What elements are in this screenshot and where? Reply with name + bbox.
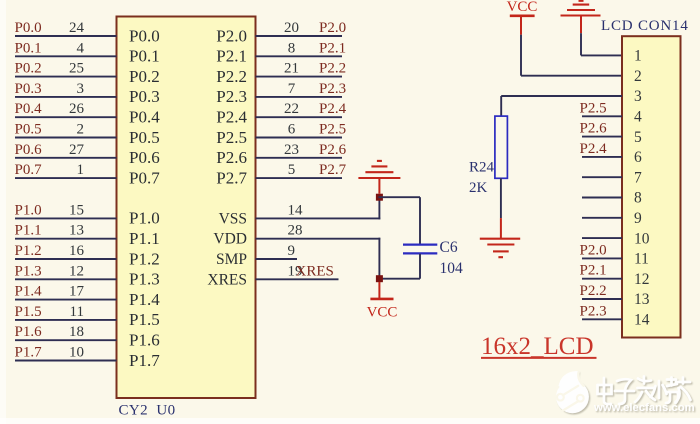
wire junction to C6 top — [378, 196, 420, 198]
svg-text:P1.3: P1.3 — [129, 270, 160, 289]
CON14 pin 5 stub wire / net P2.6 — [580, 121, 643, 146]
svg-text:P1.4: P1.4 — [129, 290, 160, 309]
wire R24 to ground — [500, 178, 502, 218]
svg-text:10: 10 — [69, 345, 84, 361]
pin 11 / net P1.5 wire (U0 left lower) — [15, 304, 160, 329]
svg-text:P2.1: P2.1 — [580, 263, 607, 279]
svg-text:7: 7 — [634, 169, 642, 186]
CON14 pin 4 stub wire / net P2.5 — [580, 100, 643, 125]
svg-text:P0.5: P0.5 — [15, 122, 42, 138]
svg-text:8: 8 — [288, 40, 296, 56]
wire VCC to CON14 pin 2 — [520, 35, 522, 76]
svg-text:104: 104 — [440, 260, 464, 277]
pin 9 SMP stub wire — [216, 243, 297, 268]
svg-text:www.elecfans.com: www.elecfans.com — [593, 402, 695, 414]
CON14 pin 10 stub wire (n.c.) — [582, 230, 650, 247]
svg-text:P2.0: P2.0 — [319, 20, 346, 36]
junction node at VDD/VCC/C6 — [376, 275, 383, 282]
svg-text:P2.7: P2.7 — [319, 162, 347, 178]
svg-text:21: 21 — [284, 61, 299, 77]
svg-text:XRES: XRES — [296, 263, 334, 279]
svg-text:P0.3: P0.3 — [129, 87, 160, 106]
svg-text:P2.0: P2.0 — [580, 242, 607, 258]
svg-text:P2.6: P2.6 — [580, 121, 608, 137]
svg-text:P2.5: P2.5 — [216, 128, 247, 147]
wire ground to CON14 pin 1 — [580, 33, 582, 55]
svg-text:P2.4: P2.4 — [216, 108, 247, 127]
svg-text:P0.3: P0.3 — [15, 81, 42, 97]
watermark text elecfans (CJK) — [598, 377, 691, 405]
svg-text:P0.2: P0.2 — [15, 61, 42, 77]
svg-text:P0.7: P0.7 — [15, 162, 43, 178]
connector CON14 body — [622, 36, 681, 337]
pin 3 / net P0.3 wire (U0 left) — [15, 81, 160, 106]
CON14 pin 8 stub wire (n.c.) — [582, 190, 642, 207]
svg-text:P0.5: P0.5 — [129, 128, 160, 147]
svg-text:P1.0: P1.0 — [15, 202, 42, 218]
wire VSS vertical up to junction — [378, 197, 380, 219]
svg-text:2K: 2K — [469, 180, 488, 196]
watermark text www.elecfans.com — [593, 402, 695, 414]
svg-text:P1.5: P1.5 — [15, 304, 42, 320]
svg-text:P2.7: P2.7 — [216, 168, 247, 187]
svg-text:16x2_LCD: 16x2_LCD — [481, 333, 594, 360]
svg-text:P2.2: P2.2 — [216, 67, 247, 86]
svg-text:P0.1: P0.1 — [15, 40, 42, 56]
pin 1 / net P0.7 wire (U0 left) — [15, 162, 161, 187]
pin 19 XRES wire and net label XRES — [207, 263, 338, 288]
svg-text:P2.6: P2.6 — [319, 142, 347, 158]
pin 4 / net P0.1 wire (U0 left) — [15, 40, 160, 65]
VCC power symbol below junction — [370, 282, 393, 299]
svg-text:25: 25 — [69, 61, 84, 77]
wire CON14 pin 3 to R24 — [501, 95, 622, 97]
VCC power symbol (top) — [507, 0, 538, 35]
svg-text:P0.1: P0.1 — [129, 47, 160, 66]
svg-text:10: 10 — [634, 230, 650, 247]
svg-text:P1.6: P1.6 — [129, 331, 160, 350]
pin 8 / net P2.1 wire (U0 right) — [216, 40, 346, 65]
svg-text:C6: C6 — [440, 239, 458, 256]
svg-text:P1.4: P1.4 — [15, 284, 43, 300]
pin 17 / net P1.4 wire (U0 left lower) — [15, 284, 161, 309]
svg-text:4: 4 — [77, 40, 85, 56]
svg-text:1: 1 — [77, 162, 85, 178]
svg-text:8: 8 — [634, 190, 642, 207]
pin 20 / net P2.0 wire (U0 right) — [216, 20, 346, 45]
svg-text:24: 24 — [69, 20, 85, 36]
svg-text:14: 14 — [634, 312, 650, 329]
svg-text:P1.1: P1.1 — [15, 223, 42, 239]
svg-text:5: 5 — [288, 162, 296, 178]
CON14 pin 13 stub wire / net P2.2 — [580, 283, 650, 308]
CON14 pin 7 stub wire (n.c.) — [582, 169, 642, 186]
svg-text:17: 17 — [69, 284, 85, 300]
svg-text:28: 28 — [288, 223, 303, 239]
svg-text:R24: R24 — [469, 160, 495, 176]
svg-text:16: 16 — [69, 243, 85, 259]
svg-text:P2.2: P2.2 — [319, 61, 346, 77]
svg-text:11: 11 — [634, 251, 649, 268]
pin 12 / net P1.3 wire (U0 left lower) — [15, 263, 160, 288]
svg-text:P2.4: P2.4 — [580, 141, 608, 157]
ground symbol below R24 — [480, 218, 520, 257]
pin 28 VDD wire (U0 to VCC junction) — [213, 223, 380, 248]
pin 10 / net P1.7 wire (U0 left lower) — [15, 345, 161, 370]
pin 14 VSS wire (U0 to ground junction) — [219, 202, 381, 227]
svg-text:12: 12 — [69, 263, 84, 279]
svg-text:13: 13 — [69, 223, 84, 239]
svg-text:4: 4 — [634, 109, 642, 126]
svg-text:P0.6: P0.6 — [15, 142, 43, 158]
svg-text:14: 14 — [288, 202, 304, 218]
watermark elecfans logo — [556, 371, 589, 413]
svg-text:P1.3: P1.3 — [15, 263, 42, 279]
junction node at VSS/ground/C6 — [376, 194, 383, 201]
svg-text:1: 1 — [634, 48, 642, 65]
svg-text:LCD CON14: LCD CON14 — [601, 18, 689, 34]
svg-text:P2.2: P2.2 — [580, 283, 607, 299]
svg-text:P0.0: P0.0 — [15, 20, 42, 36]
svg-text:7: 7 — [288, 81, 296, 97]
pin 21 / net P2.2 wire (U0 right) — [216, 61, 346, 86]
svg-text:P0.4: P0.4 — [15, 101, 43, 117]
svg-text:P2.3: P2.3 — [319, 81, 346, 97]
svg-text:XRES: XRES — [207, 271, 247, 288]
svg-text:P1.1: P1.1 — [129, 229, 160, 248]
svg-text:P2.1: P2.1 — [319, 40, 346, 56]
svg-text:12: 12 — [634, 271, 650, 288]
CON14 pin 6 stub wire / net P2.4 — [580, 141, 643, 166]
svg-text:15: 15 — [69, 202, 84, 218]
IC U0 body (CY2 28-pin) — [117, 17, 256, 399]
svg-text:18: 18 — [69, 324, 84, 340]
pin 15 / net P1.0 wire (U0 left lower) — [15, 202, 160, 227]
svg-text:6: 6 — [634, 149, 642, 166]
svg-text:VCC: VCC — [507, 0, 538, 15]
pin 5 / net P2.7 wire (U0 right) — [216, 162, 346, 187]
svg-text:P2.4: P2.4 — [319, 101, 347, 117]
title 16x2_LCD — [481, 333, 597, 360]
svg-text:2: 2 — [77, 122, 85, 138]
svg-text:P0.4: P0.4 — [129, 108, 160, 127]
svg-text:SMP: SMP — [216, 251, 247, 268]
ground symbol (top right, inverted) — [561, 1, 601, 33]
svg-text:3: 3 — [77, 81, 85, 97]
svg-text:P2.0: P2.0 — [216, 26, 247, 45]
CON14 pin 14 stub wire / net P2.3 — [580, 303, 650, 328]
svg-text:CY2 U0: CY2 U0 — [119, 403, 176, 419]
svg-text:P0.0: P0.0 — [129, 26, 160, 45]
svg-text:P0.6: P0.6 — [129, 148, 160, 167]
svg-text:VSS: VSS — [219, 210, 247, 227]
svg-text:P0.2: P0.2 — [129, 67, 160, 86]
svg-text:P1.2: P1.2 — [129, 249, 160, 268]
capacitor C6 — [403, 245, 437, 254]
svg-text:5: 5 — [634, 129, 642, 146]
CON14 pin 11 stub wire / net P2.0 — [580, 242, 649, 267]
svg-text:P2.6: P2.6 — [216, 148, 247, 167]
wire VDD vertical down to junction — [378, 238, 380, 279]
svg-text:P1.5: P1.5 — [129, 310, 160, 329]
pin 6 / net P2.5 wire (U0 right) — [216, 122, 346, 147]
svg-text:VDD: VDD — [213, 231, 247, 248]
svg-text:P2.3: P2.3 — [580, 303, 607, 319]
pin 25 / net P0.2 wire (U0 left) — [15, 61, 160, 86]
svg-text:6: 6 — [288, 122, 296, 138]
pin 16 / net P1.2 wire (U0 left lower) — [15, 243, 160, 268]
svg-text:26: 26 — [69, 101, 85, 117]
pin 18 / net P1.6 wire (U0 left lower) — [15, 324, 160, 349]
svg-text:9: 9 — [634, 210, 642, 227]
svg-text:22: 22 — [284, 101, 299, 117]
svg-text:2: 2 — [634, 68, 642, 85]
pin 26 / net P0.4 wire (U0 left) — [15, 101, 161, 126]
svg-text:9: 9 — [288, 243, 296, 259]
svg-text:23: 23 — [284, 142, 299, 158]
svg-text:P1.7: P1.7 — [15, 345, 43, 361]
svg-text:P1.7: P1.7 — [129, 351, 160, 370]
pin 23 / net P2.6 wire (U0 right) — [216, 142, 346, 167]
svg-text:3: 3 — [634, 88, 642, 105]
svg-text:P1.0: P1.0 — [129, 209, 160, 228]
pin 27 / net P0.6 wire (U0 left) — [15, 142, 160, 167]
svg-text:P2.5: P2.5 — [319, 122, 346, 138]
svg-text:11: 11 — [70, 304, 84, 320]
svg-text:P1.6: P1.6 — [15, 324, 43, 340]
pin 13 / net P1.1 wire (U0 left lower) — [15, 223, 160, 248]
pin 22 / net P2.4 wire (U0 right) — [216, 101, 346, 126]
svg-text:20: 20 — [284, 20, 299, 36]
svg-text:P2.3: P2.3 — [216, 87, 247, 106]
wire C6 bottom to VCC junction — [419, 254, 421, 279]
svg-text:VCC: VCC — [367, 304, 398, 320]
svg-text:P1.2: P1.2 — [15, 243, 42, 259]
svg-text:13: 13 — [634, 291, 650, 308]
pin 24 / net P0.0 wire (U0 left) — [15, 20, 160, 45]
svg-text:P2.1: P2.1 — [216, 47, 247, 66]
ground symbol (inverted) above VSS junction — [358, 161, 400, 194]
CON14 pin 9 stub wire (n.c.) — [582, 210, 642, 227]
resistor R24 body — [495, 116, 508, 178]
svg-text:27: 27 — [69, 142, 85, 158]
pin 7 / net P2.3 wire (U0 right) — [216, 81, 346, 106]
CON14 pin 12 stub wire / net P2.1 — [580, 263, 650, 288]
pin 2 / net P0.5 wire (U0 left) — [15, 122, 160, 147]
svg-text:P0.7: P0.7 — [129, 168, 160, 187]
svg-text:P2.5: P2.5 — [580, 100, 607, 116]
